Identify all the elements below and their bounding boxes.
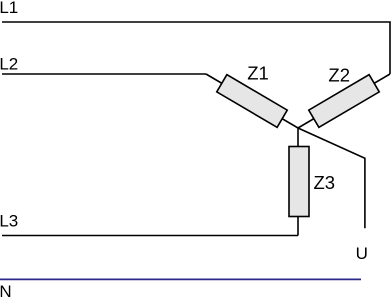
wire star point to U terminal [298, 128, 365, 228]
wire N neutral (blue) [0, 278, 361, 280]
svg-text:L1: L1 [0, 0, 18, 17]
wire L2 to star point [206, 74, 298, 128]
wire L2 horizontal [2, 73, 206, 75]
svg-text:Z1: Z1 [247, 62, 269, 83]
impedance Z3 [289, 147, 309, 217]
svg-text:U: U [356, 244, 368, 263]
svg-text:L2: L2 [0, 55, 18, 74]
svg-text:Z2: Z2 [328, 64, 350, 85]
impedance Z2 [309, 75, 379, 128]
svg-text:Z3: Z3 [314, 172, 336, 193]
svg-text:N: N [0, 282, 12, 298]
wire L1 to star point [298, 74, 390, 128]
wire L3 horizontal [2, 235, 298, 237]
impedance Z1 [217, 75, 287, 128]
wire L1 horizontal [2, 22, 390, 74]
wire star point to L3 vertical [297, 128, 299, 236]
svg-text:L3: L3 [0, 211, 18, 230]
